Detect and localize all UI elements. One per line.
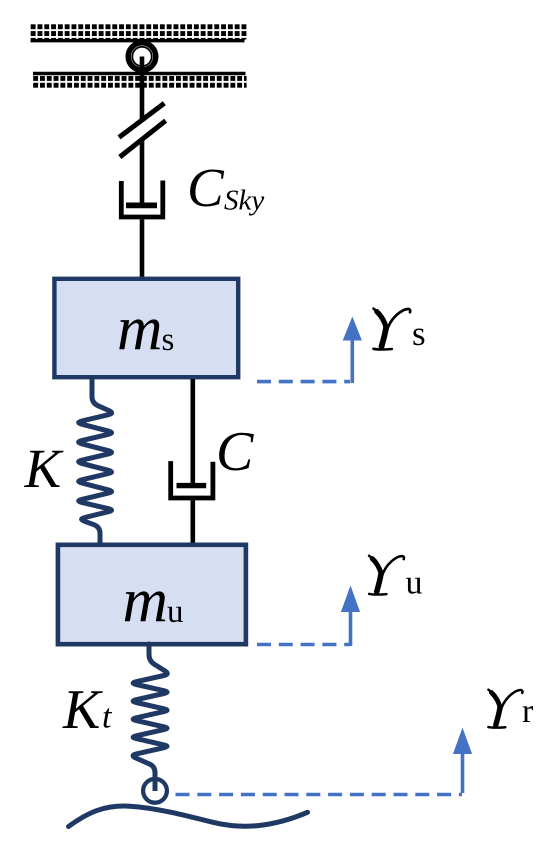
wire: rod from pulley to break — [140, 57, 145, 121]
arrow Ys — [343, 317, 362, 384]
svg-text:C: C — [216, 421, 254, 483]
ceiling lower hatched band — [33, 74, 247, 89]
spring Kt — [133, 644, 167, 780]
svg-text:m: m — [117, 294, 163, 364]
svg-text:r: r — [522, 693, 534, 730]
wheel contact circle — [143, 779, 167, 803]
datum line Yr — [176, 793, 463, 797]
ceiling upper hatched band — [31, 23, 247, 40]
road surface — [69, 806, 308, 826]
skyhook pulley — [128, 43, 156, 71]
wire: spring Kt rod into wheel centre — [153, 776, 158, 791]
wire: rod from mass ms to damper C piston — [191, 379, 196, 483]
svg-text:s: s — [162, 322, 175, 358]
damper CSky — [121, 181, 163, 218]
mass ms — [54, 279, 238, 377]
label mu — [123, 566, 184, 636]
wire: rod from damper C to mass mu — [191, 500, 196, 545]
svg-text:u: u — [406, 565, 423, 602]
label Yr — [488, 690, 534, 730]
mass mu — [58, 545, 246, 644]
arrow Yu — [341, 586, 360, 647]
label CSky — [187, 157, 264, 218]
svg-text:Sky: Sky — [224, 185, 264, 217]
break slash upper — [119, 103, 164, 137]
wire: rod from damper CSky to mass ms — [140, 219, 145, 278]
svg-text:t: t — [102, 699, 113, 736]
label Kt — [62, 679, 113, 741]
svg-text:m: m — [123, 566, 169, 636]
svg-text:K: K — [24, 438, 65, 499]
datum line Ys — [257, 380, 350, 384]
svg-text:C: C — [187, 157, 225, 218]
break slash lower — [120, 121, 166, 157]
wire: rod from break to damper CSky piston — [140, 140, 145, 204]
label Yu — [369, 556, 422, 602]
label Ys — [374, 309, 426, 353]
arrow Yr — [453, 728, 472, 793]
damper C — [171, 461, 213, 498]
svg-text:K: K — [62, 679, 103, 741]
datum line Yu — [257, 643, 350, 647]
label ms — [117, 294, 174, 364]
svg-text:s: s — [412, 314, 426, 353]
spring K — [79, 380, 112, 545]
svg-text:u: u — [167, 594, 184, 630]
